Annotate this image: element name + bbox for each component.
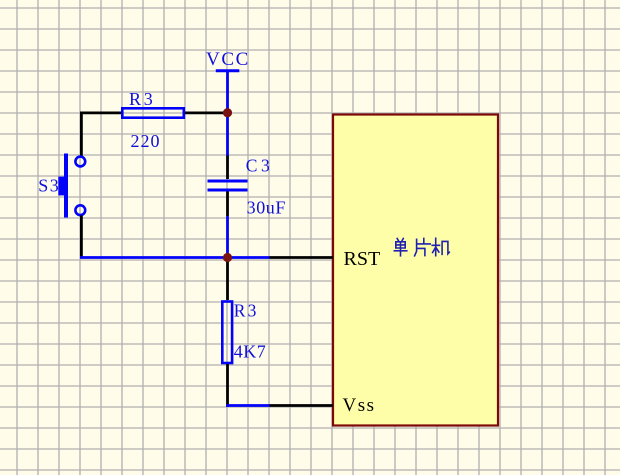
pin wire R3 left + down to switch (black) <box>81 113 121 156</box>
svg-text:30uF: 30uF <box>247 198 286 218</box>
resistor R2 (R3 4K7) body <box>222 302 232 364</box>
svg-text:VCC: VCC <box>206 49 250 70</box>
svg-text:220: 220 <box>131 131 161 151</box>
wire Vss rail (blue) <box>226 404 269 407</box>
switch S3 terminal circle bottom <box>75 205 85 215</box>
wire switch bottom down (black) <box>80 216 83 258</box>
pin R2 bottom (black) <box>226 364 229 407</box>
pin C3 bottom (black) <box>226 192 229 217</box>
switch S3 actuator bar <box>64 154 68 218</box>
pin R2 top (black) <box>226 258 229 301</box>
capacitor C3 plate bottom <box>208 189 248 192</box>
switch S3 button block <box>58 177 68 196</box>
label 单片机 (drawn strokes) <box>394 238 449 256</box>
svg-text:Vss: Vss <box>343 395 376 416</box>
wire VCC vertical <box>226 71 229 113</box>
svg-text:S3: S3 <box>38 175 60 195</box>
capacitor C3 plate top <box>208 180 248 183</box>
wire RST rail (blue) <box>80 256 270 259</box>
svg-text:RST: RST <box>344 248 381 270</box>
pin C3 top (black) <box>226 156 229 180</box>
resistor R1 (R3 220) body <box>122 108 184 117</box>
junction node B (RST rail) <box>223 253 232 262</box>
svg-text:C3: C3 <box>246 155 273 175</box>
switch S3 terminal circle top <box>75 157 85 167</box>
svg-text:R3: R3 <box>234 300 259 320</box>
pin wire R3 right (black) <box>185 112 224 115</box>
power VCC bar <box>216 69 240 72</box>
IC block U1 (microcontroller) <box>333 115 498 426</box>
svg-text:R3: R3 <box>129 89 156 109</box>
pin Vss (black) <box>270 404 334 407</box>
junction node A (VCC/R3/C3) <box>223 108 232 117</box>
pin RST (black) <box>270 256 334 259</box>
wire C3 top (blue) <box>226 113 229 156</box>
svg-text:4K7: 4K7 <box>234 341 266 361</box>
wire C3 bottom (blue) <box>226 216 229 258</box>
